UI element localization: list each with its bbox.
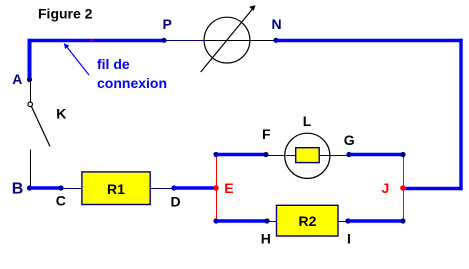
node H xyxy=(264,218,269,223)
svg-text:H: H xyxy=(261,231,271,247)
node N xyxy=(273,38,278,43)
junction dot E-top xyxy=(213,152,218,157)
node F xyxy=(263,152,268,157)
lamp L xyxy=(285,133,330,178)
svg-text:E: E xyxy=(224,180,233,196)
wire right corner to J xyxy=(403,187,463,191)
node G xyxy=(346,152,351,157)
wire G to J-top xyxy=(349,153,403,156)
wire B to C xyxy=(30,186,62,189)
svg-text:J: J xyxy=(382,180,390,196)
svg-text:C: C xyxy=(56,192,66,208)
svg-text:L: L xyxy=(303,113,312,129)
wire D to E xyxy=(174,186,216,189)
wire E-bottom to H xyxy=(216,219,267,222)
junction mark (red) on top wire xyxy=(90,39,92,41)
junction bar E (red vertical) xyxy=(216,154,218,222)
node E (red) xyxy=(213,185,219,191)
wire P to ammeter (thin) xyxy=(164,40,205,42)
node B xyxy=(27,185,32,190)
fil de connexion annotation arrow xyxy=(64,43,89,75)
wire R1 to D (thin) xyxy=(150,188,174,190)
wire R2 to I (thin) xyxy=(338,221,348,223)
wire right vertical xyxy=(459,39,462,190)
wire lamp to G (thin) xyxy=(330,155,349,157)
switch K wire from A to pivot xyxy=(30,80,32,102)
node C xyxy=(58,185,63,190)
svg-text:fil de: fil de xyxy=(97,56,130,72)
wire C to R1 (thin) xyxy=(61,188,82,190)
node A xyxy=(27,77,32,82)
junction dot J-bottom xyxy=(400,218,405,223)
svg-text:F: F xyxy=(262,126,271,142)
svg-text:I: I xyxy=(347,231,351,247)
wire H to R2 (thin) xyxy=(267,221,277,223)
switch K blade (open) xyxy=(31,106,50,146)
resistor R1 xyxy=(82,172,150,205)
wire I to J-bottom xyxy=(348,219,403,222)
switch K lower contact wire to B xyxy=(30,150,32,189)
ammeter/galvanometer U1 (circle with diagonal arrow) xyxy=(201,5,256,72)
junction dot J-top xyxy=(400,152,405,157)
svg-text:B: B xyxy=(12,181,24,198)
svg-text:N: N xyxy=(272,16,282,32)
junction bar J (red vertical) xyxy=(403,154,405,222)
svg-text:R1: R1 xyxy=(107,181,125,197)
wire ammeter to N (thin) xyxy=(250,40,276,42)
svg-text:K: K xyxy=(56,105,66,121)
svg-text:connexion: connexion xyxy=(97,75,167,91)
svg-text:G: G xyxy=(344,132,355,148)
node D xyxy=(171,185,176,190)
wire E-top to F xyxy=(216,153,266,156)
svg-text:A: A xyxy=(12,71,22,87)
node P xyxy=(161,38,166,43)
junction dot E-bottom xyxy=(213,218,218,223)
resistor R2 xyxy=(277,205,339,236)
svg-text:R2: R2 xyxy=(299,213,317,229)
node J (red) xyxy=(400,185,406,191)
switch K pivot circle xyxy=(28,102,33,107)
svg-text:D: D xyxy=(171,194,181,210)
svg-text:Figure 2: Figure 2 xyxy=(38,6,93,22)
wire N to top-right corner xyxy=(276,39,463,43)
wire F to lamp (thin) xyxy=(266,155,285,157)
wire A to top-left corner (vertical) xyxy=(28,39,32,79)
svg-text:P: P xyxy=(163,16,172,32)
node I xyxy=(345,218,350,223)
wire top horizontal corner to P xyxy=(28,39,164,43)
